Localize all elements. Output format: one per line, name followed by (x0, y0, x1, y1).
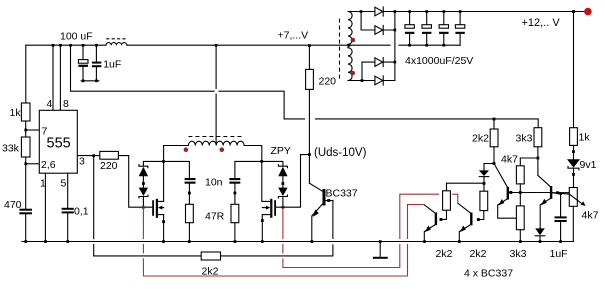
transistor B BC337 (458, 203, 480, 241)
svg-text:1uF: 1uF (550, 248, 568, 260)
svg-text:4: 4 (47, 98, 53, 110)
svg-text:4 x BC337: 4 x BC337 (464, 268, 513, 280)
wire secondary bottom end (348, 79, 395, 82)
capacitor 1uF (92, 45, 101, 81)
resistor 47R (left) (186, 204, 194, 241)
svg-text:+7,...V: +7,...V (278, 29, 309, 41)
capacitor 10n (left) (164, 161, 196, 204)
transistor C BC337 (494, 164, 550, 219)
zener 9v1 (567, 145, 580, 187)
svg-text:(Uds-10V): (Uds-10V) (314, 147, 367, 159)
resistor 1k (left) (21, 45, 30, 121)
polarity dot primary left (184, 147, 189, 152)
resistor 220 (right, vertical) (306, 45, 314, 89)
wire 2k2 line (pin3 to BC337 base) (94, 201, 333, 256)
capacitor 1000uF #1 (405, 10, 414, 46)
transformer primary dashed core (188, 136, 244, 138)
wire rectifier cathode bus (394, 10, 397, 80)
svg-text:2k2: 2k2 (436, 248, 453, 260)
MOSFET left (153, 199, 165, 242)
svg-text:220: 220 (319, 76, 337, 88)
diode D2 (375, 25, 383, 34)
node dots on +7V rail (52, 44, 98, 47)
svg-text:7: 7 (42, 126, 48, 138)
svg-text:1k: 1k (10, 107, 22, 119)
resistor 2k2 (feedback top) (490, 119, 498, 147)
svg-text:5: 5 (61, 178, 67, 190)
svg-text:8: 8 (63, 98, 69, 110)
zener pair ZPY (right gate clamp) (262, 161, 288, 207)
capacitor 10n (right) (229, 161, 261, 204)
polarity dot secondary top (351, 38, 356, 43)
svg-text:0,1: 0,1 (74, 206, 89, 218)
wire pin4 drop (52, 45, 54, 110)
polarity dot secondary bottom (350, 71, 355, 76)
svg-text:1uF: 1uF (103, 59, 121, 71)
node pin7 junction (24, 121, 39, 137)
transistor D BC337 (538, 175, 569, 228)
wire pin1 to ground rail (44, 173, 46, 241)
svg-text:2k2: 2k2 (470, 248, 487, 260)
capacitor 1000uF #2 (422, 10, 431, 46)
transformer secondary dashed core (339, 19, 341, 81)
wire +12V rail (395, 11, 585, 13)
diode D1 (375, 7, 383, 16)
diode after 2k2 (479, 164, 494, 184)
svg-text:9v1: 9v1 (580, 159, 597, 171)
IC 555 (39, 110, 77, 173)
capacitor 100uF electrolytic (78, 45, 88, 81)
transformer secondary winding bottom (348, 48, 352, 81)
wire primary left end to drain node (162, 146, 188, 202)
svg-text:4k7: 4k7 (582, 210, 599, 222)
wire primary center tap (215, 44, 218, 144)
red wire inner (right gate feedback) (283, 194, 458, 267)
wire pin3 output (77, 154, 100, 157)
svg-text:BC337: BC337 (326, 188, 358, 200)
inductor filter choke (106, 39, 127, 45)
wire pin8 drop (59, 45, 61, 110)
node diode output junction (483, 182, 486, 185)
capacitor 0,1 on pin5 (62, 173, 74, 241)
diode (D emitter) (535, 228, 545, 241)
resistor 4k7 (bias) (516, 158, 524, 206)
transformer secondary winding top (348, 12, 352, 45)
wire 220 to left gate (118, 156, 152, 208)
svg-text:3k3: 3k3 (516, 133, 533, 145)
node dots on ground rail (24, 240, 562, 243)
svg-text:10n: 10n (205, 177, 223, 189)
resistor 2k2 (horizontal) (201, 252, 220, 260)
svg-text:2k2: 2k2 (472, 133, 489, 145)
node 2k2 bottom junction (493, 147, 496, 165)
svg-text:220: 220 (100, 160, 118, 172)
svg-text:33k: 33k (2, 143, 20, 155)
wire D base to pot wiper and 1uF (552, 192, 569, 195)
diode D3 (375, 58, 383, 67)
diode D4 (375, 76, 383, 85)
node pin2,6 junction (24, 157, 39, 209)
node right gate junction (282, 206, 285, 209)
resistor B 2k2 (base B) (478, 183, 487, 219)
wire diode output to resistor A top (447, 183, 485, 191)
capacitor 470 (19, 209, 32, 242)
wire Vcc to divider rail (long) (71, 45, 539, 128)
transformer primary winding (188, 141, 244, 145)
wire pin3 branch down to 2k2 line (93, 156, 95, 256)
svg-text:470: 470 (4, 199, 22, 211)
capacitor 1000uF #4 (455, 10, 464, 45)
potentiometer 4k7 (569, 188, 585, 242)
svg-text:3: 3 (79, 156, 85, 168)
svg-text:100 uF: 100 uF (60, 31, 93, 43)
resistor 47R (right) (231, 204, 239, 241)
terminal +12 (red) (584, 8, 592, 16)
wire primary right end to drain node (244, 146, 263, 202)
capacitor 1uF (right) (555, 193, 567, 241)
node left gate junction (142, 206, 145, 209)
resistor 220 (pin3) (100, 151, 119, 159)
wire capacitor bottoms join (81, 80, 99, 83)
svg-text:ZPY: ZPY (271, 145, 291, 157)
node +7V to 220 junction (308, 44, 311, 47)
capacitor 1000uF #3 (439, 10, 448, 46)
svg-text:+12,.. V: +12,.. V (522, 17, 561, 29)
ground rail (bottom) (22, 241, 573, 243)
polarity dot primary right (220, 147, 225, 152)
resistor 3k3 (lower) (516, 206, 524, 242)
MOSFET right (mirrored) (261, 199, 275, 242)
svg-text:1k: 1k (579, 132, 591, 144)
resistor A 2k2 (base A) (441, 191, 450, 220)
resistor 33k (21, 137, 30, 157)
zener pair ZPY (left gate clamp) (139, 161, 164, 207)
red wire outer (left gate feedback) (143, 205, 424, 277)
wire 4k7 top to 3k3 bottom (520, 147, 539, 176)
wire +12 down to 1k (573, 12, 575, 128)
node divider rail to 2k2 (493, 118, 496, 121)
ground symbol (373, 240, 388, 258)
svg-text:47R: 47R (205, 211, 225, 223)
svg-text:555: 555 (47, 136, 71, 152)
wire +7V top rail (26, 44, 460, 46)
resistor 3k3 (top) (534, 128, 542, 147)
wire secondary top end (348, 10, 395, 13)
svg-text:4x1000uF/25V: 4x1000uF/25V (405, 55, 473, 67)
diode D3 path (362, 62, 395, 80)
transistor BC337 (driver) (309, 183, 333, 241)
diode D2 path (361, 12, 395, 31)
svg-text:2,6: 2,6 (41, 159, 56, 171)
resistor 1k (right) (570, 128, 578, 146)
wire right gate to 220/BC337 node (276, 155, 308, 208)
node secondary center tap (348, 44, 351, 48)
wire 220 down to BC337 collector (308, 89, 311, 183)
svg-text:4k7: 4k7 (501, 154, 518, 166)
svg-text:3k3: 3k3 (510, 248, 527, 260)
node +12 to 1k junction (572, 10, 575, 13)
transistor A BC337 (424, 205, 443, 242)
